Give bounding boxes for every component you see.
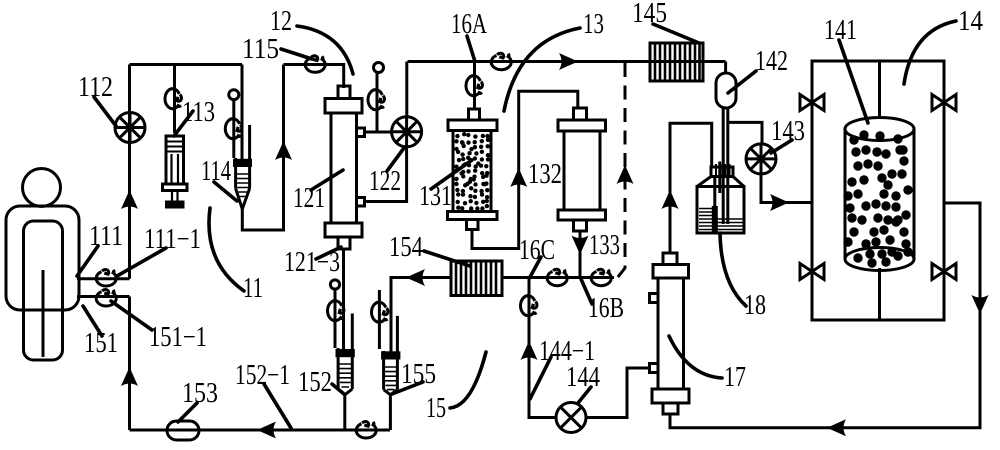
arrow right into reservoir <box>770 194 789 211</box>
adsorbent beads in column 131 <box>454 132 490 211</box>
clamp on 121 vent <box>368 90 384 110</box>
arrow down on tank outlet drop <box>972 295 989 314</box>
arrow left on lower return line <box>827 419 846 436</box>
clamp on main line <box>491 53 511 69</box>
wire: pump 122 to top main line <box>405 62 408 117</box>
wire: manifold to column 121 top <box>284 65 344 89</box>
wire: 121 top side port to pump 122 <box>365 131 392 134</box>
valve upper-left on tank 14 <box>800 95 824 111</box>
syringe 113 <box>163 136 188 207</box>
heat exchanger 145 <box>650 43 703 81</box>
label 16A leader <box>467 36 475 60</box>
vent cap circle of 114 <box>229 90 239 100</box>
label 154 leader <box>424 251 470 266</box>
arrow up on 131-132 transfer line <box>510 168 527 187</box>
wire: pump 122 bottom to 121 lower port <box>365 147 407 202</box>
patient figure: shoulders and arms <box>6 206 79 310</box>
svg-text:18: 18 <box>744 290 766 321</box>
svg-text:142: 142 <box>755 46 788 77</box>
label 15 leader <box>450 352 486 408</box>
wire: left riser x=129.5 up to top manifold <box>128 65 131 279</box>
plasma separator column 121 <box>325 86 365 249</box>
label 16B leader <box>581 279 592 304</box>
wire: stem from main line to capsule 142 <box>724 62 727 75</box>
label 115 leader <box>281 49 312 59</box>
wire: 131 outlet over to column 132 top <box>472 91 578 248</box>
svg-text:121−3: 121−3 <box>284 247 340 278</box>
pump 122 <box>392 117 422 147</box>
svg-text:155: 155 <box>401 359 436 390</box>
pump 144 <box>556 403 586 433</box>
arrow up on left riser <box>121 190 138 209</box>
label 114 leader <box>214 182 237 201</box>
arrow down on 132 outlet <box>572 236 589 255</box>
wire: pump 143 discharge into reservoir 14 <box>761 174 812 203</box>
label 11 leader <box>209 208 244 291</box>
label 122 leader <box>387 148 404 171</box>
label 153 leader <box>178 403 197 422</box>
plasma filter 17 <box>650 253 690 414</box>
clamp on fresh dialysate line <box>520 296 536 316</box>
sorbent cartridge cylinder 141 <box>845 118 914 271</box>
drip chamber 152 vent circle <box>330 280 339 289</box>
label 17 leader <box>669 336 722 378</box>
label 145 leader <box>653 24 699 43</box>
clamp 151 <box>96 290 116 306</box>
vent stem on 121 port line <box>376 71 379 132</box>
vent cap circle on 121 port line <box>374 63 384 73</box>
pump 143 <box>746 144 776 174</box>
svg-text:13: 13 <box>583 9 604 40</box>
svg-text:115: 115 <box>242 34 279 65</box>
svg-text:17: 17 <box>724 362 746 393</box>
reservoir tank 14 outline <box>812 61 944 320</box>
clamp 115 <box>305 56 325 72</box>
svg-text:16B: 16B <box>588 293 624 324</box>
wire: top-left manifold y=64.5 <box>130 63 243 66</box>
wire: tank center drain bottom <box>878 268 881 320</box>
svg-text:152: 152 <box>298 367 332 398</box>
label 141 leader <box>839 40 868 123</box>
wire: tank outlet to bottom return <box>670 203 980 428</box>
svg-text:141: 141 <box>824 15 857 46</box>
arrow up on filter 17 top line <box>662 190 679 209</box>
pump 112 <box>115 113 145 143</box>
wire: 152 outlet to bottom line <box>343 393 346 430</box>
label 18 leader <box>720 233 746 306</box>
valve lower-left on tank 14 <box>800 264 824 280</box>
svg-text:11: 11 <box>243 273 263 304</box>
clamp on 155 vent <box>371 302 387 322</box>
drip chamber 114 <box>235 125 251 209</box>
label 113 leader <box>174 111 193 136</box>
sorbent beads in cylinder 141 <box>843 130 912 267</box>
heat exchanger 154 <box>451 261 502 296</box>
patient figure: leg split line <box>42 270 45 357</box>
wire: 155 outlet to bottom line <box>389 393 392 430</box>
wire: venous downcomer x=129.5 <box>128 297 131 431</box>
wire: main dialysate line y=61.5 <box>408 60 726 63</box>
label 12 leader <box>297 26 353 74</box>
wire: junction down to pump 144 <box>529 278 556 418</box>
arrow up on venous downcomer <box>121 367 138 386</box>
svg-text:114: 114 <box>201 156 231 187</box>
drip chamber 155 vent stem <box>378 290 381 349</box>
label 151-1 leader <box>111 301 152 330</box>
clamp 111 <box>96 270 116 286</box>
clamp 16A <box>466 76 482 96</box>
svg-text:154: 154 <box>389 232 423 263</box>
vent stem of 114 <box>232 100 235 158</box>
wire: tank center feed top <box>878 61 881 117</box>
svg-text:111−1: 111−1 <box>144 224 201 255</box>
patient figure: torso and legs <box>24 221 63 360</box>
clamp on 152 vent <box>327 301 343 321</box>
arrow up 144-1 flow <box>521 341 538 360</box>
svg-text:121: 121 <box>293 183 325 214</box>
valve upper-right on tank 14 <box>932 95 956 111</box>
label 131 leader <box>431 160 472 189</box>
svg-text:153: 153 <box>182 378 218 409</box>
bubble trap 153 on bottom line <box>167 421 199 440</box>
plasma component separator column 132 <box>558 108 606 231</box>
svg-text:152−1: 152−1 <box>235 360 290 391</box>
arrow left toward 155 <box>406 269 425 286</box>
wire: arterial stub from patient to riser <box>77 277 130 280</box>
svg-text:16A: 16A <box>451 9 488 40</box>
arrow right on main line <box>559 53 578 70</box>
label 144-1 leader <box>530 357 551 399</box>
wire: 132 outlet down to dialysate junction <box>579 231 582 278</box>
arrow left on bottom return line <box>257 422 276 439</box>
drip chamber 155 <box>383 316 399 395</box>
bottle 18 short vent tube <box>718 162 721 194</box>
label 152 leader <box>332 384 344 394</box>
svg-text:151: 151 <box>84 328 118 359</box>
clamp on bottom return line <box>356 422 376 438</box>
arrow up on 114 outlet riser <box>275 141 292 160</box>
clamp on syringe line <box>165 89 181 109</box>
svg-text:113: 113 <box>182 97 215 128</box>
bottle 18 submerged suction tube <box>713 176 716 208</box>
svg-text:151−1: 151−1 <box>149 322 207 353</box>
svg-text:112: 112 <box>78 72 113 103</box>
collection bottle 18 <box>697 164 744 233</box>
svg-text:145: 145 <box>632 0 667 29</box>
wire: 114 outlet to riser <box>242 65 283 231</box>
label 121-3 leader <box>316 247 341 259</box>
clamp 16B on return line <box>591 269 611 285</box>
valve lower-right on tank 14 <box>932 264 956 280</box>
wire: drop from main line into column 131 <box>473 62 476 110</box>
svg-text:122: 122 <box>369 166 401 197</box>
wire: capsule to bottle tube (double line) <box>723 108 728 224</box>
label 151 leader <box>83 306 102 336</box>
label 111 leader <box>77 246 98 276</box>
label 155 leader <box>392 382 423 394</box>
wire: dialysate return line right of heater 154 <box>502 276 614 279</box>
drip capsule 142 <box>716 73 736 108</box>
patient figure: head <box>23 169 61 207</box>
svg-text:12: 12 <box>270 6 292 37</box>
wire: pump 144 suction from filter 17 port <box>586 368 649 418</box>
svg-text:133: 133 <box>589 230 620 261</box>
label 121 leader <box>311 170 343 190</box>
wire: inlet drop into drip chamber 114 <box>241 65 244 162</box>
wire: drop to syringe 113 <box>173 65 176 134</box>
clamp 16C on return line <box>547 269 567 285</box>
wire: bottom return line y=430 <box>130 429 391 432</box>
label 152-1 leader <box>264 384 291 428</box>
label 143 leader <box>771 140 792 153</box>
label 13 leader <box>504 28 580 111</box>
label 111-1 leader <box>117 248 166 276</box>
label 142 leader <box>728 71 756 93</box>
label 144 leader <box>578 387 591 403</box>
bottle 18 liquid hatch <box>699 209 743 230</box>
label 14 leader <box>904 21 956 84</box>
svg-text:144: 144 <box>566 362 600 393</box>
svg-text:132: 132 <box>528 159 562 190</box>
svg-text:16C: 16C <box>519 235 555 266</box>
svg-text:14: 14 <box>958 6 983 37</box>
wire: heater 154 to drip chamber 155 <box>391 278 451 354</box>
wire: venous stub from patient to downcomer <box>77 295 130 298</box>
wire: column 121 bottom outlet into 152 <box>342 249 345 351</box>
drip chamber 152 <box>337 314 353 395</box>
adsorption column 131 shell <box>448 109 498 230</box>
svg-text:111: 111 <box>89 221 123 252</box>
label 112 leader <box>94 97 116 126</box>
clamp on 114 vent <box>225 119 241 139</box>
drip chamber 152 vent stem <box>334 289 337 348</box>
arrow up on dashed bypass <box>617 165 634 184</box>
svg-text:131: 131 <box>419 181 452 212</box>
label 16C leader <box>530 257 542 278</box>
wire: branch to pump 143 <box>729 122 762 144</box>
svg-text:15: 15 <box>426 393 446 424</box>
dashed bypass line <box>618 63 626 278</box>
wire: filter 17 top line to bottle 18 <box>670 123 712 253</box>
svg-text:143: 143 <box>771 116 805 147</box>
